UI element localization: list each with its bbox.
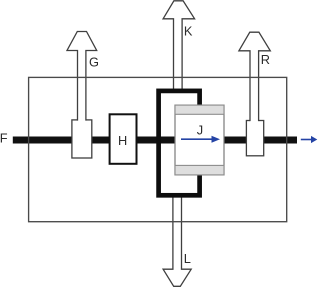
component J cylinder body xyxy=(175,105,224,175)
svg-text:L: L xyxy=(184,251,191,266)
block on wire under R xyxy=(246,121,263,156)
svg-text:G: G xyxy=(89,54,99,69)
arrow G (up, outline) xyxy=(67,32,97,122)
svg-text:J: J xyxy=(197,122,203,137)
svg-text:F: F xyxy=(0,131,8,146)
svg-text:R: R xyxy=(261,52,270,67)
wire F main thick line xyxy=(13,137,297,144)
J bottom cap bar xyxy=(175,165,224,175)
block on wire under G xyxy=(72,120,92,158)
blue arrow at right output xyxy=(301,136,318,143)
arrow K (up, outline) xyxy=(163,1,195,92)
svg-text:K: K xyxy=(184,23,193,38)
outer enclosure box xyxy=(29,77,287,221)
arrow R (up, outline) xyxy=(239,32,270,122)
J top cap bar xyxy=(175,105,224,114)
arrow L (down, outline) xyxy=(163,194,191,286)
thick frame around J xyxy=(159,91,200,195)
blue arrow inside J xyxy=(181,136,220,143)
component H box xyxy=(110,114,137,164)
svg-text:H: H xyxy=(118,133,127,148)
